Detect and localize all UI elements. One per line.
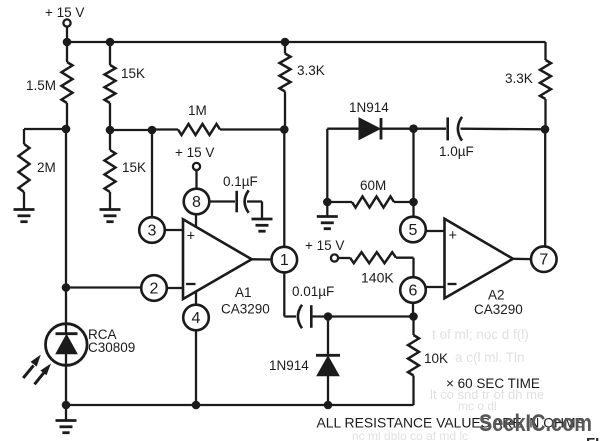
svg-text:0.1µF: 0.1µF xyxy=(223,174,258,189)
photodiode D RCA C30809 xyxy=(46,129,136,405)
svg-text:0.01µF: 0.01µF xyxy=(292,284,334,299)
svg-text:15K: 15K xyxy=(121,66,145,81)
svg-text:7: 7 xyxy=(539,252,548,269)
svg-text:+ 15 V: + 15 V xyxy=(305,238,344,253)
svg-text:3: 3 xyxy=(148,222,157,239)
svg-text:1.0µF: 1.0µF xyxy=(439,144,474,159)
pin 7 output A2 xyxy=(513,246,557,272)
op-amp U A1 triangle xyxy=(183,219,252,299)
pin 6 xyxy=(400,277,444,316)
pin 8 xyxy=(184,189,210,215)
node junction 3.3K right bottom xyxy=(541,125,550,134)
label all resistance values xyxy=(317,415,585,431)
light arrow 2 xyxy=(35,364,52,385)
ground under 2M xyxy=(14,210,35,222)
ground under 60M xyxy=(317,202,338,229)
resistor R 60M xyxy=(327,178,413,208)
node junction 1.5M bottom xyxy=(62,125,71,134)
watermark SeekIC.com xyxy=(479,410,592,437)
ghost print-through text rows (decorative) xyxy=(352,327,544,441)
node junction 60M right xyxy=(409,198,418,207)
resistor R 1M feedback xyxy=(152,103,285,135)
power terminal +15V pin 8 xyxy=(175,145,214,189)
node junction top rail at 1.5M xyxy=(63,38,72,47)
wire pin8 to op-amp xyxy=(195,214,197,228)
svg-text:SeekIC.com: SeekIC.com xyxy=(479,410,592,437)
resistor R 140K xyxy=(338,252,413,285)
wire top supply rail xyxy=(67,41,546,43)
power terminal +15V top-left xyxy=(45,5,84,42)
svg-text:2M: 2M xyxy=(37,160,56,175)
node junction pin6/10K xyxy=(409,312,418,321)
label 60 sec time xyxy=(446,376,540,391)
power terminal +15V 140K xyxy=(305,238,344,262)
light arrow 1 xyxy=(23,355,41,378)
svg-text:CA3290: CA3290 xyxy=(221,302,270,317)
resistor R 10K xyxy=(408,317,448,406)
resistor R 3.3K left xyxy=(280,42,325,130)
svg-text:CA3290: CA3290 xyxy=(474,302,523,317)
svg-text:3.3K: 3.3K xyxy=(505,71,533,86)
svg-text:1: 1 xyxy=(280,252,289,269)
wire down to pin 3 xyxy=(151,130,153,217)
node junction diode bottom xyxy=(324,401,333,410)
diode D 1N914 lower xyxy=(269,317,340,406)
ground under 15K xyxy=(100,210,121,222)
wire bottom rail xyxy=(66,404,414,406)
capacitor C 0.01uF xyxy=(292,284,334,328)
label A2 xyxy=(474,288,523,318)
pin 5 xyxy=(400,217,444,243)
svg-text:2: 2 xyxy=(150,280,159,297)
wire pin1 down to 0.01uF xyxy=(284,272,296,316)
svg-text:10K: 10K xyxy=(424,351,448,366)
node junction photodiode bottom xyxy=(62,401,71,410)
svg-text:140K: 140K xyxy=(361,270,394,286)
pin 4 xyxy=(183,292,209,405)
svg-text:1.5M: 1.5M xyxy=(26,78,56,93)
label A1 xyxy=(221,285,270,317)
resistor R 15K lower xyxy=(105,130,147,210)
svg-text:A1: A1 xyxy=(235,285,252,300)
svg-text:FI: FI xyxy=(586,435,599,441)
svg-text:60M: 60M xyxy=(360,178,386,193)
svg-text:+ 15 V: + 15 V xyxy=(45,5,84,20)
wire left branch to 2M xyxy=(24,129,66,144)
wire pin2 to photodiode node xyxy=(66,286,141,288)
svg-text:4: 4 xyxy=(192,310,201,327)
svg-text:a c(l ml. Tln: a c(l ml. Tln xyxy=(455,350,525,365)
resistor R 1.5M xyxy=(26,42,73,129)
svg-text:1N914: 1N914 xyxy=(269,358,309,373)
wire 0.01uF node to pin6 node xyxy=(328,315,414,317)
wire 15K node to pin3 branch xyxy=(110,129,152,131)
svg-text:8: 8 xyxy=(192,194,201,211)
pin 2 xyxy=(141,275,183,301)
resistor R 15K upper xyxy=(105,42,146,130)
pin 3 xyxy=(139,217,183,243)
svg-text:1M: 1M xyxy=(188,103,207,118)
resistor R 2M xyxy=(19,144,56,210)
svg-text:1N914: 1N914 xyxy=(349,100,389,115)
svg-text:+ 15 V: + 15 V xyxy=(175,145,214,160)
svg-text:15K: 15K xyxy=(122,160,146,175)
node junction pin3 branch xyxy=(148,126,157,135)
svg-text:t of ml; noc d f(l): t of ml; noc d f(l) xyxy=(432,327,529,342)
node junction top rail at 15K xyxy=(106,38,115,47)
wire feedback column to pin 5 xyxy=(412,129,414,217)
wire 3.3K node down to pin 1 xyxy=(283,130,285,248)
corner text FI xyxy=(586,435,599,441)
node junction 60M left xyxy=(323,198,332,207)
svg-text:+: + xyxy=(187,228,195,244)
resistor R 3.3K right xyxy=(505,42,551,129)
capacitor C 0.1uF xyxy=(209,174,262,219)
node junction top rail at 3.3K xyxy=(281,38,290,47)
op-amp U A2 triangle xyxy=(445,219,514,298)
svg-text:A2: A2 xyxy=(488,288,505,303)
svg-text:5: 5 xyxy=(409,222,418,239)
node junction feedback diode/cap xyxy=(409,124,418,133)
diode D 1N914 feedback xyxy=(327,100,413,202)
node junction pin2 tap xyxy=(62,283,71,292)
svg-text:3.3K: 3.3K xyxy=(297,63,325,78)
node junction 1M right / 3.3K bottom xyxy=(280,125,289,134)
node junction 15K bottom xyxy=(106,126,115,135)
node junction pin4 bottom xyxy=(192,401,201,410)
ground bottom rail xyxy=(56,405,77,433)
svg-text:C30809: C30809 xyxy=(88,340,135,355)
ground under 0.1uF xyxy=(252,219,273,231)
pin 1 output A1 xyxy=(252,247,297,273)
node junction diode 1N914 lower xyxy=(324,312,333,321)
wire pin7 up to 3.3K/cap node xyxy=(544,129,546,246)
capacitor C 1.0uF xyxy=(414,117,546,159)
svg-text:+: + xyxy=(448,228,456,244)
svg-text:nc ml dblo co af md lc: nc ml dblo co af md lc xyxy=(352,429,468,441)
svg-text:6: 6 xyxy=(409,282,418,299)
